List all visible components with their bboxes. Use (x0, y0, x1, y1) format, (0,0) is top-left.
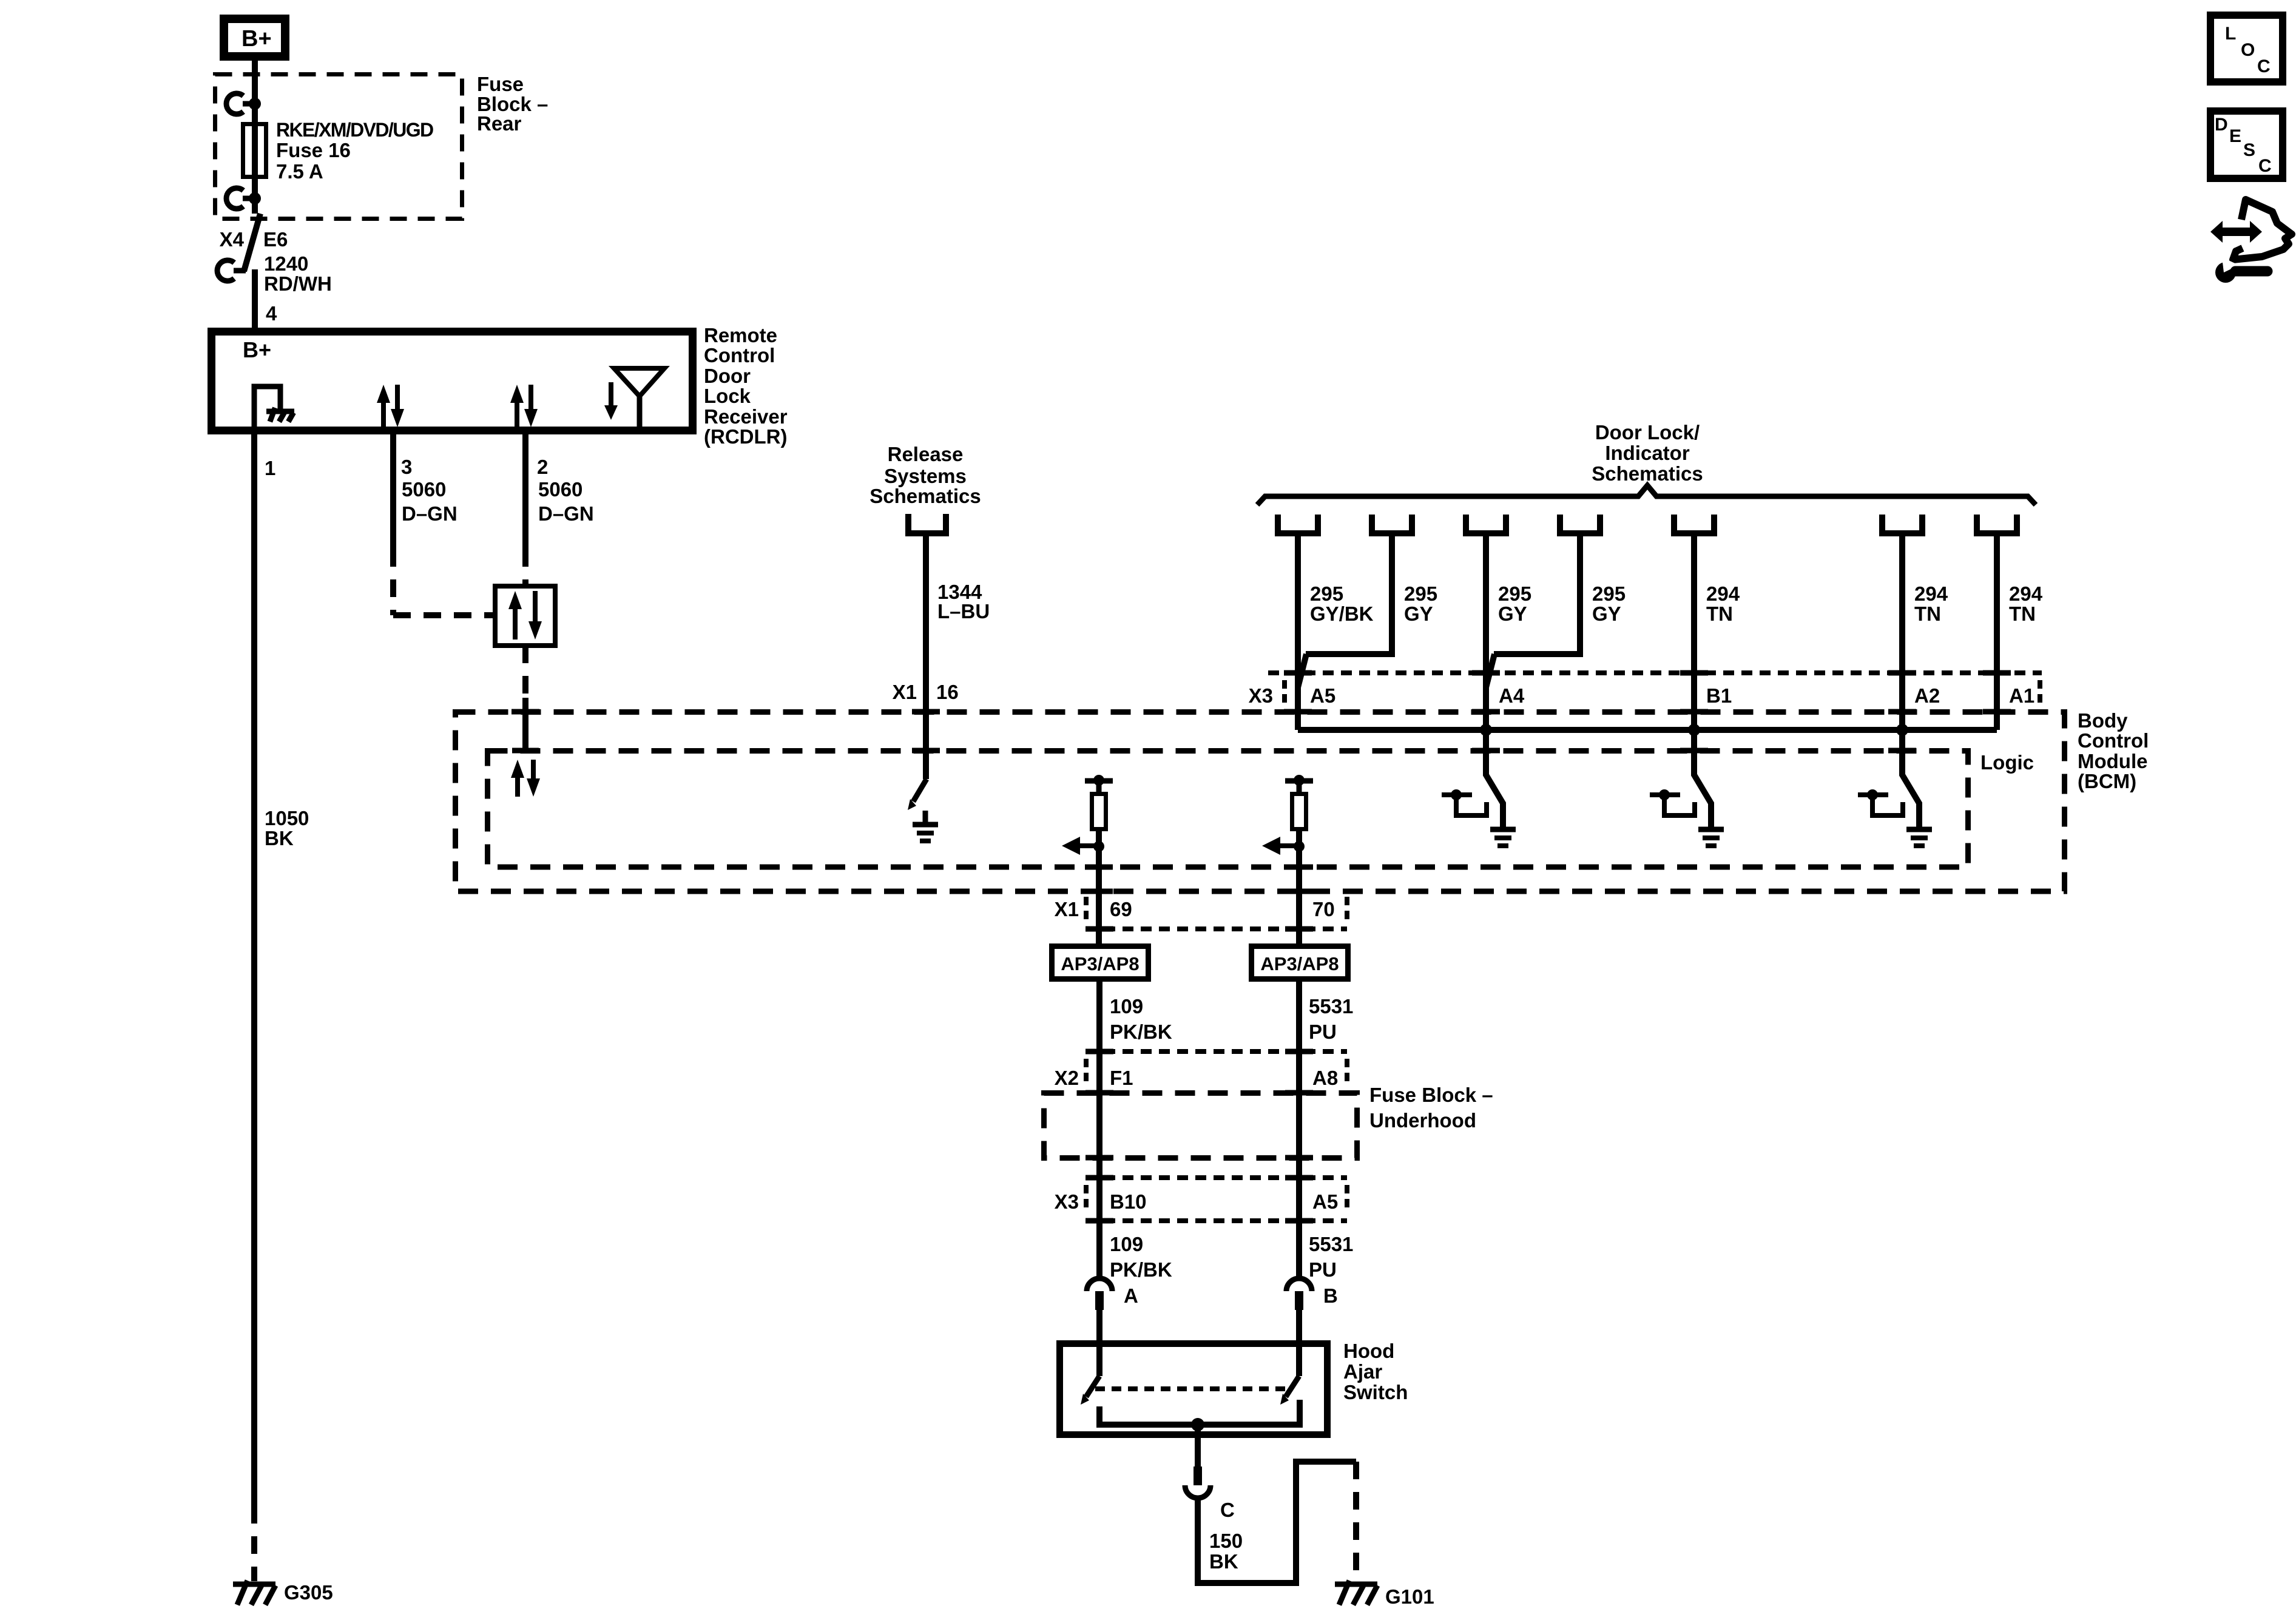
label Fuse Block - Underhood (1369, 1084, 1493, 1132)
off-page connector bracket 4 (door lock schematics) (1560, 515, 1600, 533)
dashed wire from lock module into BCM (512, 646, 539, 751)
wire 1344 L-BU (926, 536, 990, 779)
svg-text:Door Lock/: Door Lock/ (1595, 421, 1700, 444)
label RCDLR (704, 324, 788, 448)
svg-text:C: C (2258, 156, 2272, 176)
svg-text:AP3/AP8: AP3/AP8 (1260, 953, 1339, 974)
wire 109 PK/BK upper (1099, 982, 1172, 1277)
label 295 GY (1592, 582, 1626, 625)
wire 295 GY (A4) (1483, 536, 1489, 775)
svg-text:2: 2 (537, 456, 548, 478)
svg-text:294: 294 (1914, 582, 1948, 605)
border crossing ticks (512, 673, 2011, 891)
svg-text:Door: Door (704, 365, 751, 387)
BCM label Body Control Module (2078, 709, 2149, 792)
svg-text:294: 294 (1706, 582, 1740, 605)
svg-text:X2: X2 (1055, 1067, 1079, 1089)
svg-text:(BCM): (BCM) (2078, 770, 2136, 792)
svg-text:PK/BK: PK/BK (1110, 1021, 1172, 1043)
svg-text:X3: X3 (1249, 684, 1273, 707)
wire 5060 D-GN pin 2 (525, 428, 594, 584)
svg-text:109: 109 (1110, 1233, 1143, 1255)
svg-text:Receiver: Receiver (704, 405, 788, 428)
hood ajar switch box (1060, 1344, 1328, 1435)
BCM sense arrow (pin 70) (1262, 837, 1305, 855)
wire 1050 BK from RCDLR pin 1 (254, 428, 309, 1506)
svg-text:Module: Module (2078, 750, 2147, 772)
svg-text:A1: A1 (2009, 684, 2034, 707)
label 295 GY (1498, 582, 1531, 625)
DESC icon (2210, 111, 2283, 178)
svg-text:PK/BK: PK/BK (1110, 1258, 1172, 1281)
hood switch common contact wire (1099, 1400, 1300, 1425)
hood switch pole A (1081, 1340, 1099, 1405)
svg-text:A4: A4 (1499, 684, 1525, 707)
BCM internal ground (A4 driver) (1490, 829, 1516, 846)
svg-text:109: 109 (1110, 995, 1143, 1018)
svg-text:5531: 5531 (1309, 995, 1353, 1018)
off-page connector bracket 3 (door lock schematics) (1466, 515, 1506, 533)
RCDLR pin labels 1 3 2 (265, 456, 548, 479)
connector X4 pin E6 crossing (217, 214, 288, 281)
svg-text:Logic: Logic (1980, 751, 2034, 774)
wire 5531 PU lower (1309, 1233, 1353, 1281)
brace over door lock references (1257, 485, 2036, 505)
label 295 GY/BK (1310, 582, 1374, 625)
interactive arrow/hand/wrench icon (2210, 200, 2292, 283)
BCM logic lock/unlock arrows (511, 760, 540, 797)
svg-text:295: 295 (1404, 582, 1437, 605)
in-line connector AP3/AP8 (wire 109) (1052, 947, 1149, 979)
off-page reference Release Systems Schematics (869, 443, 981, 533)
svg-text:Body: Body (2078, 709, 2128, 732)
junction A4 on bus (1480, 724, 1492, 736)
BCM sense arrow (pin 69) (1062, 837, 1104, 855)
svg-text:TN: TN (1914, 602, 1941, 625)
svg-text:X3: X3 (1055, 1190, 1079, 1213)
svg-text:BK: BK (265, 827, 294, 849)
wire dashed drop to G305 (251, 1506, 257, 1581)
BCM driver output A2 (1858, 730, 1919, 829)
svg-text:294: 294 (2009, 582, 2043, 605)
off-page connector bracket 6 (door lock schematics) (1882, 515, 1922, 533)
svg-text:X1: X1 (1055, 898, 1079, 920)
svg-text:G101: G101 (1385, 1585, 1434, 1608)
BCM internal bus wire (1298, 727, 1997, 733)
wire 294 TN (A2) (1899, 536, 1905, 775)
svg-text:Indicator: Indicator (1605, 442, 1690, 464)
wire 295 GY jog into A5 (1298, 536, 1392, 687)
connector row X3 (BCM) dotted outline (1268, 673, 2042, 708)
svg-text:B: B (1323, 1284, 1338, 1307)
svg-text:Control: Control (2078, 729, 2149, 752)
svg-text:Control: Control (704, 344, 775, 366)
svg-text:295: 295 (1498, 582, 1531, 605)
svg-text:1050: 1050 (265, 807, 309, 829)
svg-text:AP3/AP8: AP3/AP8 (1061, 953, 1139, 974)
svg-text:GY: GY (1404, 602, 1433, 625)
fuse block underhood dashed box (1044, 1093, 1357, 1158)
BCM driver output B1 (1650, 730, 1711, 829)
svg-text:A2: A2 (1914, 684, 1940, 707)
connector row X1 pins 69 70 (1055, 897, 1347, 929)
svg-text:A5: A5 (1310, 684, 1335, 707)
svg-text:Fuse 16: Fuse 16 (276, 139, 351, 161)
svg-text:Systems: Systems (884, 465, 967, 487)
svg-text:E6: E6 (263, 228, 288, 251)
BCM pull-up resistor (pin 69) (1085, 775, 1113, 944)
RCDLR internal ground (pin 1) (254, 386, 294, 428)
svg-text:1240: 1240 (264, 252, 308, 275)
svg-text:L–BU: L–BU (937, 600, 990, 623)
BCM driver output A4 (1442, 730, 1503, 829)
junction B1 on bus (1688, 724, 1700, 736)
svg-text:Release: Release (888, 443, 964, 465)
hood switch mechanical link (1095, 1386, 1289, 1391)
svg-text:B1: B1 (1706, 684, 1732, 707)
wire 5531 PU upper (1299, 982, 1353, 1277)
wire 295 GY/BK (A5) (1295, 536, 1301, 730)
label 294 TN (1914, 582, 1948, 625)
svg-text:Schematics: Schematics (869, 485, 981, 507)
ticks on fuse block rows (1086, 929, 1313, 1221)
svg-text:D: D (2215, 115, 2228, 135)
svg-text:PU: PU (1309, 1258, 1337, 1281)
wire 294 TN (B1) (1691, 536, 1697, 775)
RCDLR lock/unlock symbol pin 3 (377, 385, 404, 427)
BCM logic dashed box (488, 751, 1968, 868)
RCDLR Remote Control Door Lock Receiver box (212, 332, 693, 431)
svg-text:F1: F1 (1110, 1067, 1133, 1089)
label Fuse Block - Rear (477, 73, 548, 135)
svg-text:295: 295 (1310, 582, 1343, 605)
svg-text:O: O (2241, 40, 2255, 60)
svg-text:A8: A8 (1312, 1067, 1338, 1089)
wire 150 BK (1198, 1462, 1356, 1583)
label 295 GY (1404, 582, 1437, 625)
svg-text:70: 70 (1312, 898, 1335, 920)
wire 5060 D-GN pin 3 (393, 428, 493, 615)
svg-text:C: C (2257, 56, 2271, 76)
fuse 16 element (243, 122, 266, 179)
ground G305 (233, 1581, 333, 1605)
RCDLR antenna symbol (604, 368, 664, 428)
label 294 TN (2009, 582, 2043, 625)
svg-text:Fuse: Fuse (477, 73, 524, 95)
svg-text:Hood: Hood (1343, 1340, 1394, 1362)
off-page connector bracket 5 (door lock schematics) (1674, 515, 1714, 533)
svg-text:B10: B10 (1110, 1190, 1147, 1213)
svg-text:B+: B+ (241, 26, 272, 52)
svg-text:5531: 5531 (1309, 1233, 1353, 1255)
svg-text:RKE/XM/DVD/UGD: RKE/XM/DVD/UGD (276, 119, 433, 141)
off-page reference Door Lock/Indicator Schematics heading (1592, 421, 1703, 485)
svg-text:BK: BK (1209, 1550, 1238, 1573)
svg-text:Switch: Switch (1343, 1381, 1408, 1403)
ground G101 (1335, 1581, 1434, 1608)
connector row X2 pins F1 A8 (1055, 1051, 1347, 1089)
svg-text:S: S (2243, 140, 2255, 160)
label Hood Ajar Switch (1343, 1340, 1408, 1403)
wire 294 TN (A1) (1994, 536, 2000, 730)
connector X1 pin 16 labels (893, 681, 959, 703)
svg-text:X1: X1 (893, 681, 917, 703)
svg-text:B+: B+ (243, 337, 271, 362)
wire to connector C (1195, 1425, 1201, 1466)
wire fuse to connector clip (252, 179, 258, 214)
svg-text:16: 16 (936, 681, 959, 703)
label 294 TN (1706, 582, 1740, 625)
svg-text:D–GN: D–GN (538, 502, 594, 525)
wire from B+ to fuse 16 (252, 61, 258, 122)
svg-text:TN: TN (1706, 602, 1733, 625)
svg-text:7.5 A: 7.5 A (276, 160, 323, 183)
svg-text:5060: 5060 (538, 478, 582, 501)
label RKE/XM/DVD/UGD Fuse 16 7.5 A (276, 119, 433, 183)
svg-text:C: C (1220, 1499, 1235, 1521)
in-line connector pin C (1185, 1466, 1235, 1521)
svg-text:Underhood: Underhood (1369, 1109, 1476, 1132)
wire 109 PK/BK lower (1110, 1233, 1172, 1281)
svg-text:150: 150 (1209, 1530, 1243, 1552)
off-page connector bracket 2 (door lock schematics) (1372, 515, 1412, 533)
off-page connector bracket 1 (door lock schematics) (1278, 515, 1318, 533)
LOC icon (2210, 15, 2283, 82)
connector row X3 pins B10 A5 (1055, 1178, 1347, 1221)
svg-text:Ajar: Ajar (1343, 1360, 1382, 1383)
BCM internal ground (B1 driver) (1698, 829, 1724, 846)
svg-text:A: A (1124, 1284, 1138, 1307)
svg-text:Remote: Remote (704, 324, 777, 346)
svg-text:L: L (2225, 24, 2236, 44)
svg-text:4: 4 (266, 302, 277, 325)
svg-text:PU: PU (1309, 1021, 1337, 1043)
RCDLR lock/unlock symbol pin 2 (510, 385, 538, 427)
svg-text:RD/WH: RD/WH (264, 272, 332, 295)
wire 295 GY jog into A4 (1486, 536, 1580, 687)
svg-text:3: 3 (401, 456, 412, 478)
svg-text:Lock: Lock (704, 385, 751, 407)
junction A2 on bus (1896, 724, 1908, 736)
BCM outer dashed box (456, 712, 2065, 892)
node B+ battery feed terminal (224, 19, 285, 56)
terminal clip below fuse (226, 188, 261, 209)
svg-text:Fuse Block –: Fuse Block – (1369, 1084, 1493, 1106)
svg-text:GY: GY (1498, 602, 1527, 625)
hood switch pole B (1280, 1340, 1299, 1405)
BCM internal ground below switch (913, 811, 938, 841)
in-line connector AP3/AP8 (wire 5531) (1252, 947, 1348, 979)
svg-text:1: 1 (265, 457, 275, 479)
door lock/unlock module symbol (495, 586, 555, 646)
fuse block - rear dashed box (215, 75, 462, 219)
BCM internal switch (hood status input) (908, 779, 927, 810)
off-page connector bracket 7 (door lock schematics) (1977, 515, 2017, 533)
svg-text:G305: G305 (284, 1581, 333, 1604)
in-line connector pin B (1286, 1278, 1338, 1340)
svg-text:A5: A5 (1312, 1190, 1338, 1213)
svg-text:X4: X4 (220, 228, 245, 251)
svg-text:5060: 5060 (402, 478, 446, 501)
svg-text:E: E (2229, 126, 2241, 146)
svg-text:Rear: Rear (477, 112, 522, 135)
terminal clip above fuse (226, 93, 261, 114)
junction on common contact (1191, 1418, 1204, 1431)
wire 1240 RD/WH to RCDLR pin 4 (255, 252, 332, 332)
svg-text:295: 295 (1592, 582, 1626, 605)
BCM pull-up resistor (pin 70) (1285, 775, 1313, 944)
dashed drop to G101 (1353, 1462, 1359, 1581)
svg-text:GY: GY (1592, 602, 1621, 625)
in-line connector pin A (1087, 1278, 1138, 1340)
svg-text:69: 69 (1110, 898, 1132, 920)
svg-text:GY/BK: GY/BK (1310, 602, 1374, 625)
svg-text:D–GN: D–GN (402, 502, 458, 525)
svg-text:TN: TN (2009, 602, 2036, 625)
BCM internal ground (A2 driver) (1906, 829, 1932, 846)
svg-text:(RCDLR): (RCDLR) (704, 425, 787, 448)
